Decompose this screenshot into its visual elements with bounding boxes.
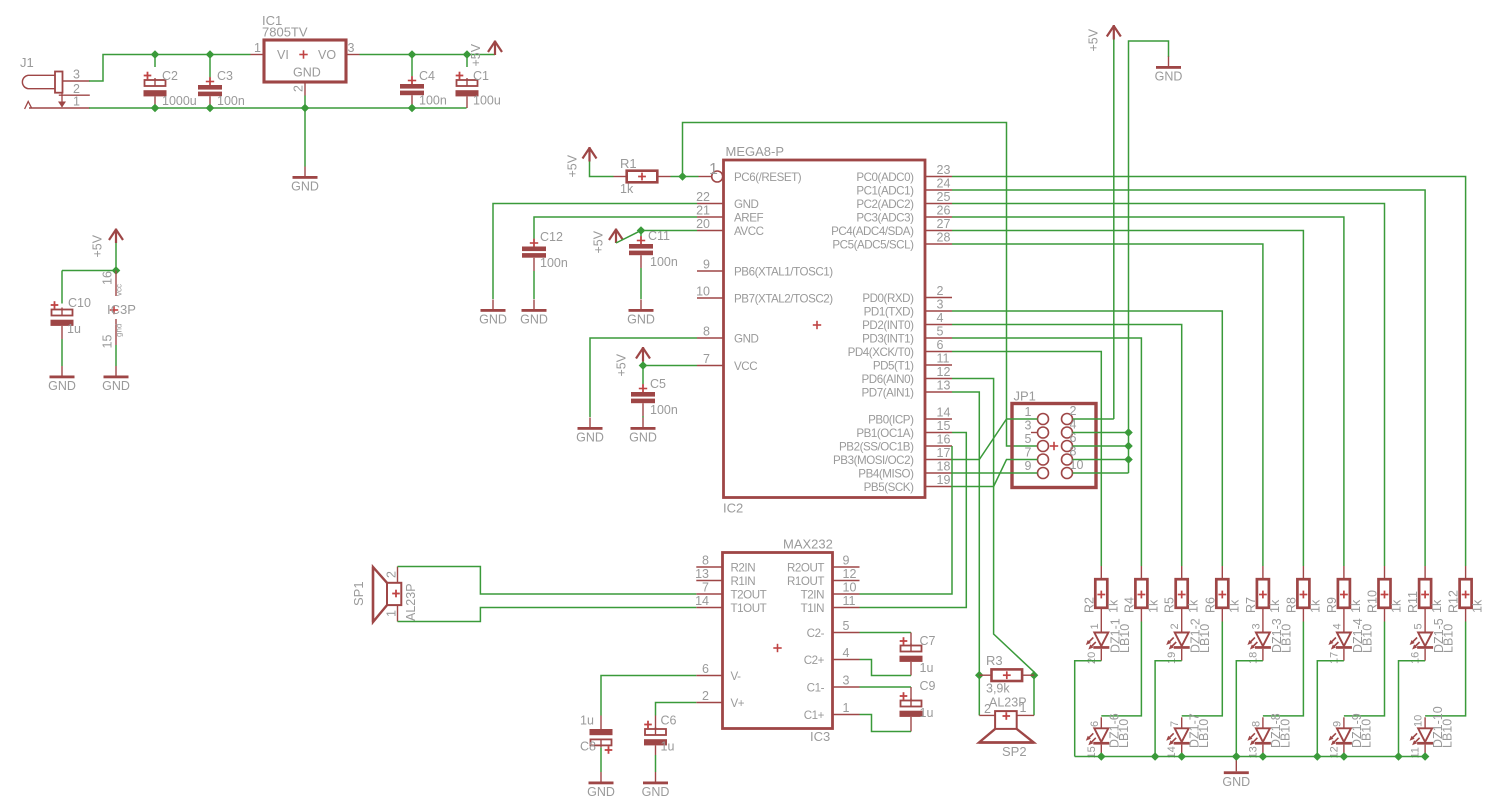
wire R12 to DZ1-10 xyxy=(1425,622,1466,716)
svg-text:PD6(AIN0): PD6(AIN0) xyxy=(862,373,915,386)
wire C4 top lead xyxy=(411,55,413,77)
svg-text:R2: R2 xyxy=(1082,597,1096,613)
svg-text:6: 6 xyxy=(937,338,944,352)
resistor R2 xyxy=(1095,579,1107,608)
junction IC3P vcc xyxy=(112,266,121,275)
junction bus at jog 4 xyxy=(1313,752,1322,761)
R2 bottom lead xyxy=(1100,608,1102,622)
JP1 pin 7 xyxy=(1038,454,1049,465)
junction bus at jog 2 xyxy=(1151,752,1160,761)
LED DZ1-7 xyxy=(1166,717,1190,756)
resistor R5 xyxy=(1176,579,1188,608)
svg-text:R2OUT: R2OUT xyxy=(787,561,824,574)
SP1 pin 1 stub xyxy=(397,605,399,621)
svg-text:8: 8 xyxy=(702,554,709,568)
C6 top lead xyxy=(655,716,657,730)
ground below C6 xyxy=(642,772,670,799)
svg-text:16: 16 xyxy=(101,271,115,285)
wire +5V rail down to JP1 pin2 xyxy=(1113,40,1115,420)
svg-text:1: 1 xyxy=(843,701,850,715)
svg-text:T2IN: T2IN xyxy=(801,588,824,601)
R9 top lead xyxy=(1343,566,1345,580)
wire C10 to gnd xyxy=(61,339,63,366)
svg-text:1000u: 1000u xyxy=(162,94,197,108)
svg-text:PD2(INT0): PD2(INT0) xyxy=(862,319,914,332)
pin 1 of J1 xyxy=(29,107,90,109)
C4 bottom lead xyxy=(411,95,413,108)
wire pin28 to R7 xyxy=(952,244,1263,566)
svg-text:5: 5 xyxy=(1025,432,1032,446)
wire pin4 to R5 xyxy=(952,325,1182,567)
svg-text:9: 9 xyxy=(1331,721,1343,727)
junction gnd rail at JP1 pin8 xyxy=(1124,455,1133,464)
LED DZ1-4 xyxy=(1328,622,1352,661)
wire 5V to VCC node xyxy=(642,362,644,366)
svg-text:10: 10 xyxy=(696,285,710,299)
junction C3 top xyxy=(206,50,215,59)
svg-text:PB5(SCK): PB5(SCK) xyxy=(864,481,914,494)
resistor R9 xyxy=(1338,579,1350,608)
junction R3 right node xyxy=(1030,671,1039,680)
JP1 pin 10 xyxy=(1062,468,1073,479)
svg-text:PC2(ADC2): PC2(ADC2) xyxy=(856,198,914,211)
svg-text:T1IN: T1IN xyxy=(801,602,824,615)
speaker SP1 AL23P xyxy=(373,567,401,622)
svg-text:12: 12 xyxy=(843,567,857,581)
svg-text:LB10: LB10 xyxy=(1359,719,1373,748)
svg-text:C9: C9 xyxy=(920,679,936,693)
svg-text:16: 16 xyxy=(937,433,951,447)
IC2 pin 27 stub xyxy=(925,230,952,232)
R5 top lead xyxy=(1181,566,1183,580)
svg-text:3: 3 xyxy=(937,298,944,312)
gnd tap stem xyxy=(1235,757,1237,763)
svg-text:GND: GND xyxy=(627,313,655,327)
svg-text:AVCC: AVCC xyxy=(734,225,764,238)
resistor R7 xyxy=(1257,579,1269,608)
svg-text:2: 2 xyxy=(292,85,306,92)
wire pin22 to gnd xyxy=(493,204,697,300)
wire 5V to IC3P xyxy=(115,243,117,271)
svg-text:100u: 100u xyxy=(473,94,501,108)
svg-text:R10: R10 xyxy=(1366,590,1380,613)
R3 right lead xyxy=(1022,674,1034,676)
svg-text:7: 7 xyxy=(703,352,710,366)
junction GND rail at IC1 xyxy=(301,104,310,113)
wire DZ1-2 cathode down xyxy=(1155,661,1182,757)
R12 bottom lead xyxy=(1465,608,1467,622)
svg-text:1k: 1k xyxy=(1106,599,1120,613)
IC2 pin 17 stub xyxy=(925,459,952,461)
+5V supply symbol at regulator output xyxy=(469,41,502,67)
IC3P pin 15 (gnd) xyxy=(115,319,117,345)
+5V supply symbol at C5 xyxy=(615,347,651,377)
svg-text:MAX232: MAX232 xyxy=(783,537,833,552)
junction bus at DZ1-8 cathode xyxy=(1259,752,1268,761)
svg-text:8: 8 xyxy=(703,325,710,339)
ground below C8 xyxy=(587,772,615,799)
svg-text:7: 7 xyxy=(702,581,709,595)
svg-text:19: 19 xyxy=(1166,652,1178,664)
ground LED bus ground xyxy=(1222,762,1250,789)
svg-text:MEGA8-P: MEGA8-P xyxy=(726,144,785,159)
svg-text:vcc: vcc xyxy=(115,284,124,296)
IC3P origin cross xyxy=(110,306,118,314)
svg-text:GND: GND xyxy=(629,431,657,445)
svg-text:T2OUT: T2OUT xyxy=(731,588,767,601)
junction C3 bottom xyxy=(206,104,215,113)
svg-text:C12: C12 xyxy=(540,230,563,244)
ground below C5 xyxy=(629,418,657,445)
JP1 pin 3 stub xyxy=(1031,432,1038,434)
R11 bottom lead xyxy=(1424,608,1426,622)
svg-text:3: 3 xyxy=(1025,419,1032,433)
IC3 pin 12 stub xyxy=(833,580,860,582)
R10 bottom lead xyxy=(1384,608,1386,622)
svg-text:9: 9 xyxy=(843,554,850,568)
svg-text:VI: VI xyxy=(277,48,289,62)
svg-text:10: 10 xyxy=(1413,715,1425,727)
svg-text:2: 2 xyxy=(1169,623,1181,629)
ground below C12 xyxy=(520,300,548,327)
IC2 pin 28 stub xyxy=(925,243,952,245)
svg-text:PD4(XCK/T0): PD4(XCK/T0) xyxy=(848,346,915,359)
IC2 pin 18 stub xyxy=(925,472,952,474)
svg-text:GND: GND xyxy=(587,785,615,799)
svg-text:R6: R6 xyxy=(1203,597,1217,613)
svg-text:PD3(INT1): PD3(INT1) xyxy=(862,332,914,345)
IC2 pin 2 stub xyxy=(925,297,952,299)
svg-text:1u: 1u xyxy=(920,661,934,675)
wire C11 to gnd xyxy=(640,268,642,299)
svg-text:13: 13 xyxy=(937,379,951,393)
wire R8 to DZ1-8 xyxy=(1263,622,1304,716)
R7 top lead xyxy=(1262,566,1264,580)
svg-text:22: 22 xyxy=(696,190,710,204)
svg-text:1: 1 xyxy=(709,161,718,178)
svg-text:9: 9 xyxy=(1025,459,1032,473)
JP1 pin 8 xyxy=(1062,454,1073,465)
ground pin8 ground xyxy=(576,418,604,445)
svg-text:PB0(ICP): PB0(ICP) xyxy=(868,413,914,426)
svg-text:PC1(ADC1): PC1(ADC1) xyxy=(856,184,914,197)
ground below C11 xyxy=(627,300,655,327)
wire pin8 to gnd xyxy=(590,338,697,417)
wire pin5 to R4 xyxy=(952,338,1141,566)
svg-text:C7: C7 xyxy=(920,634,936,648)
wire R6 to DZ1-7 xyxy=(1182,622,1223,716)
svg-text:IC3P: IC3P xyxy=(107,302,136,317)
C6 bottom lead xyxy=(655,746,657,756)
connector J1 jack symbol xyxy=(22,72,66,110)
junction bus at DZ1-7 cathode xyxy=(1177,752,1186,761)
wire C6 to gnd xyxy=(655,755,657,772)
IC2 pin 22 stub xyxy=(697,203,724,205)
svg-text:10: 10 xyxy=(843,581,857,595)
wire MOSI pin17 to JP1 pin1 xyxy=(952,419,1038,460)
resistor R6 xyxy=(1216,579,1228,608)
resistor R10 xyxy=(1379,579,1391,608)
capacitor C1 (polarized) xyxy=(456,72,479,97)
IC2 pin 26 stub xyxy=(925,216,952,218)
IC2 pin 25 stub xyxy=(925,203,952,205)
svg-text:V-: V- xyxy=(731,670,742,683)
R8 top lead xyxy=(1302,566,1304,580)
speaker SP2 AL23P xyxy=(979,711,1034,742)
C7 top lead xyxy=(910,633,912,646)
svg-text:PD0(RXD): PD0(RXD) xyxy=(862,292,914,305)
capacitor C5 xyxy=(631,384,655,403)
capacitor C11 xyxy=(629,236,653,255)
svg-text:LB10: LB10 xyxy=(1360,624,1374,653)
resistor R11 xyxy=(1419,579,1431,608)
svg-text:IC2: IC2 xyxy=(723,501,743,516)
IC3 pin 3 stub xyxy=(833,686,860,688)
svg-text:C10: C10 xyxy=(68,296,91,310)
junction bus at DZ1-10 cathode xyxy=(1421,752,1430,761)
IC1 pin 2 stub xyxy=(304,82,306,96)
svg-text:V+: V+ xyxy=(731,697,745,710)
pin 3 of J1 xyxy=(63,80,90,82)
svg-text:+5V: +5V xyxy=(91,234,105,257)
svg-text:LB10: LB10 xyxy=(1442,624,1456,653)
junction C4 bottom xyxy=(408,104,417,113)
svg-text:3,9k: 3,9k xyxy=(986,682,1010,696)
svg-text:+5V: +5V xyxy=(566,154,580,177)
wire C5 to gnd xyxy=(642,416,644,418)
svg-text:LB10: LB10 xyxy=(1198,624,1212,653)
svg-text:23: 23 xyxy=(937,163,951,177)
svg-text:C1+: C1+ xyxy=(804,709,825,722)
wire C2- to C7 xyxy=(860,632,912,634)
IC2 pin 16 stub xyxy=(925,445,952,447)
JP1 pin 3 xyxy=(1038,427,1049,438)
junction C4 top xyxy=(408,50,417,59)
C9 bottom lead xyxy=(910,717,912,732)
wire SP1 pin2 to T2OUT xyxy=(398,567,697,595)
svg-text:19: 19 xyxy=(937,473,951,487)
wire C2 top lead xyxy=(154,55,156,68)
level shifter IC3 MAX232 xyxy=(723,553,833,729)
svg-text:24: 24 xyxy=(937,177,951,191)
wire pin20 AVCC to C11 xyxy=(641,230,697,232)
R6 bottom lead xyxy=(1221,608,1223,622)
svg-text:GND: GND xyxy=(1222,775,1250,789)
svg-text:VO: VO xyxy=(318,48,336,62)
JP1 pin 2 xyxy=(1062,414,1073,425)
svg-text:100n: 100n xyxy=(217,94,245,108)
LED DZ1-6 xyxy=(1086,717,1110,756)
svg-text:PC4(ADC4/SDA): PC4(ADC4/SDA) xyxy=(831,225,914,238)
svg-text:PC6(/RESET): PC6(/RESET) xyxy=(734,171,802,184)
svg-text:LB10: LB10 xyxy=(1118,624,1132,653)
IC2 pin 14 stub xyxy=(925,418,952,420)
+5V supply symbol at R1 xyxy=(566,147,597,178)
svg-text:100n: 100n xyxy=(540,256,568,270)
svg-text:T1OUT: T1OUT xyxy=(731,602,767,615)
svg-text:20: 20 xyxy=(1086,652,1098,664)
svg-text:1u: 1u xyxy=(920,706,934,720)
svg-text:PD7(AIN1): PD7(AIN1) xyxy=(862,386,915,399)
svg-text:C5: C5 xyxy=(650,377,666,391)
IC2 pin 4 stub xyxy=(925,324,952,326)
svg-text:AREF: AREF xyxy=(734,211,763,224)
junction C2 bottom xyxy=(151,104,160,113)
IC2 pin 1 PC6(/RESET) with inversion bubble xyxy=(699,171,723,182)
svg-text:C1-: C1- xyxy=(807,681,825,694)
ground below IC1 xyxy=(291,167,319,194)
svg-text:C2: C2 xyxy=(162,69,178,83)
wire C11 top lead xyxy=(640,231,642,237)
wire DZ1-3 cathode down xyxy=(1236,661,1263,757)
resistor R1 xyxy=(627,171,658,183)
wire C10 top lead xyxy=(61,271,63,304)
wire JP1 pin2 to +5V xyxy=(1073,418,1114,420)
IC2 pin 20 stub xyxy=(697,230,724,232)
junction bus at DZ1-9 cathode xyxy=(1340,752,1349,761)
IC2 pin 12 stub xyxy=(925,378,952,380)
svg-text:26: 26 xyxy=(937,204,951,218)
svg-text:GND: GND xyxy=(734,198,758,211)
wire pin25 to R10 xyxy=(952,204,1385,567)
junction bus at gnd tap xyxy=(1232,752,1241,761)
wire DZ1-5 cathode down xyxy=(1399,661,1426,757)
wire J1-3 to VI xyxy=(89,55,251,82)
svg-text:1k: 1k xyxy=(620,182,634,196)
LED DZ1-1 xyxy=(1086,622,1110,661)
capacitor C8 (polarized) xyxy=(590,729,613,754)
svg-text:GND: GND xyxy=(48,379,76,393)
wire pin21 AREF to C12 xyxy=(534,217,697,239)
svg-text:18: 18 xyxy=(937,460,951,474)
svg-text:+5V: +5V xyxy=(592,230,606,253)
IC2 pin 24 stub xyxy=(925,189,952,191)
svg-text:1k: 1k xyxy=(1187,599,1201,613)
svg-text:13: 13 xyxy=(695,567,709,581)
svg-text:15: 15 xyxy=(937,419,951,433)
R9 bottom lead xyxy=(1343,608,1345,622)
JP1 pin 6 xyxy=(1062,441,1073,452)
svg-text:28: 28 xyxy=(937,231,951,245)
svg-text:C2+: C2+ xyxy=(804,654,825,667)
wire PD7 pin13 to SP2 pin2 xyxy=(952,392,979,715)
svg-text:2: 2 xyxy=(1070,404,1077,418)
junction bus at DZ1-6 cathode xyxy=(1097,752,1106,761)
wire IC3P to C10 xyxy=(62,270,116,272)
C8 top lead xyxy=(600,716,602,730)
svg-text:1u: 1u xyxy=(67,322,81,336)
wire pin27 to R8 xyxy=(952,231,1303,567)
C10 bottom lead xyxy=(61,326,63,339)
microcontroller IC2 MEGA8-P xyxy=(724,160,926,498)
svg-text:R8: R8 xyxy=(1284,597,1298,613)
wire C1 top lead xyxy=(466,55,468,68)
SP2 pin 2 stub xyxy=(979,714,995,716)
capacitor C4 xyxy=(400,76,424,95)
wire V- to C8 xyxy=(601,676,696,716)
wire R1 to pin1 xyxy=(671,176,699,178)
wire pin23 to R12 xyxy=(952,177,1466,567)
wire reset net up and to JP1 xyxy=(683,123,1038,447)
wire C1+ to C9 bottom xyxy=(860,715,912,732)
svg-text:PC5(ADC5/SCL): PC5(ADC5/SCL) xyxy=(832,238,914,251)
wire pin24 to R11 xyxy=(952,190,1425,566)
svg-text:11: 11 xyxy=(937,352,950,366)
svg-text:R5: R5 xyxy=(1163,597,1177,613)
wire C5 top lead xyxy=(642,366,644,385)
R1 right lead xyxy=(657,176,671,178)
svg-text:17: 17 xyxy=(937,446,951,460)
svg-text:1k: 1k xyxy=(1430,599,1444,613)
svg-text:6: 6 xyxy=(1089,721,1101,727)
svg-text:R7: R7 xyxy=(1244,597,1258,613)
wire 5V to R1 xyxy=(590,162,614,177)
svg-text:6: 6 xyxy=(702,662,709,676)
IC1 pin 3 stub xyxy=(346,54,360,56)
IC3 pin 2 stub xyxy=(696,702,722,704)
wire C8 to gnd xyxy=(600,748,602,773)
wire pin7 VCC xyxy=(643,365,697,367)
LED DZ1-10 xyxy=(1410,717,1434,756)
IC2 pin 8 stub xyxy=(697,337,724,339)
wire PB1 pin15 to T1IN xyxy=(860,433,967,608)
svg-text:+5V: +5V xyxy=(469,43,483,66)
JP1 pin 1 xyxy=(1038,414,1049,425)
wire DZ1-1 cathode down xyxy=(1075,661,1102,757)
IC3 pin 4 stub xyxy=(833,659,860,661)
svg-text:IC3: IC3 xyxy=(810,729,830,744)
svg-text:C3: C3 xyxy=(217,69,233,83)
svg-text:3: 3 xyxy=(348,41,355,55)
svg-text:GND: GND xyxy=(642,785,670,799)
R2 top lead xyxy=(1100,566,1102,580)
svg-text:20: 20 xyxy=(696,217,710,231)
svg-text:R1IN: R1IN xyxy=(731,575,756,588)
svg-text:gnd: gnd xyxy=(115,324,124,337)
IC2 pin 11 stub xyxy=(925,364,952,366)
C5 bottom lead xyxy=(642,403,644,416)
svg-text:PB1(OC1A): PB1(OC1A) xyxy=(856,427,914,440)
capacitor C2 (polarized) xyxy=(144,72,167,97)
svg-text:GND: GND xyxy=(576,431,604,445)
svg-text:1: 1 xyxy=(73,95,80,109)
capacitor C7 (polarized) xyxy=(900,637,923,662)
wire DZ1-4 cathode down xyxy=(1317,661,1344,757)
capacitor C6 (polarized) xyxy=(644,721,667,746)
svg-text:R11: R11 xyxy=(1406,591,1420,613)
voltage regulator IC1 7805TV xyxy=(264,40,346,82)
svg-text:16: 16 xyxy=(1410,652,1422,664)
wire pin26 to R9 xyxy=(952,217,1344,566)
svg-text:5: 5 xyxy=(937,325,944,339)
IC2 pin 13 stub xyxy=(925,391,952,393)
junction AVCC node xyxy=(637,226,646,235)
wire pin6 to R2 xyxy=(952,352,1101,567)
svg-text:1k: 1k xyxy=(1308,599,1322,613)
svg-text:100n: 100n xyxy=(650,255,678,269)
R5 bottom lead xyxy=(1181,608,1183,622)
svg-text:27: 27 xyxy=(937,217,951,231)
IC2 pin 15 stub xyxy=(925,432,952,434)
svg-text:C4: C4 xyxy=(419,69,435,83)
IC3 pin 7 stub xyxy=(696,593,722,595)
resistor R4 xyxy=(1135,579,1147,608)
svg-text:1k: 1k xyxy=(1268,599,1282,613)
svg-text:15: 15 xyxy=(101,335,115,349)
svg-text:GND: GND xyxy=(291,180,319,194)
svg-text:18: 18 xyxy=(1247,652,1259,664)
IC2 pin 10 stub xyxy=(697,297,724,299)
